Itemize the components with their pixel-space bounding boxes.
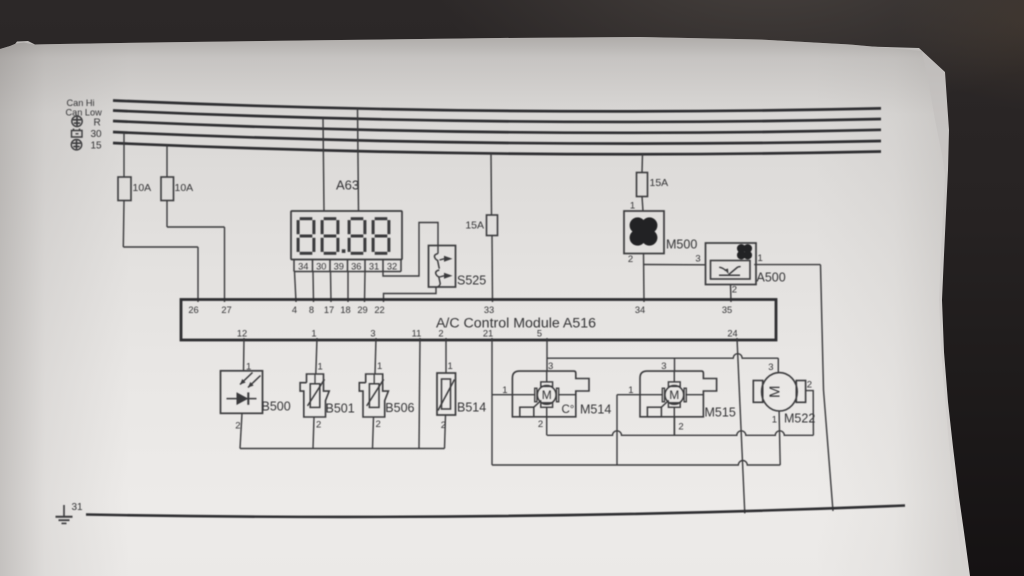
svg-text:R: R [94,117,101,128]
svg-text:1: 1 [318,362,323,373]
svg-text:A500: A500 [757,271,786,285]
svg-text:3: 3 [548,361,553,372]
svg-text:10A: 10A [175,182,194,194]
svg-text:36: 36 [351,261,361,271]
svg-text:11: 11 [412,329,422,339]
svg-text:2: 2 [807,380,812,391]
svg-text:2: 2 [316,420,321,431]
svg-text:M: M [669,388,679,402]
svg-text:Can Low: Can Low [66,108,103,118]
svg-text:M500: M500 [666,238,697,252]
svg-text:1: 1 [630,201,635,212]
svg-text:8: 8 [309,305,314,315]
svg-text:3: 3 [370,329,375,339]
svg-text:2: 2 [438,329,443,339]
svg-text:B501: B501 [326,401,355,415]
svg-text:2: 2 [732,285,737,296]
svg-text:12: 12 [237,329,247,339]
svg-text:10A: 10A [133,182,152,194]
svg-text:4: 4 [292,305,297,315]
svg-text:B514: B514 [457,401,486,415]
svg-text:1: 1 [377,361,382,372]
svg-text:34: 34 [635,305,645,315]
svg-text:30: 30 [316,261,326,271]
svg-text:3: 3 [695,254,700,265]
svg-text:21: 21 [483,329,493,339]
svg-text:1: 1 [311,329,316,339]
svg-text:M514: M514 [580,402,611,416]
svg-text:1: 1 [758,253,763,264]
svg-text:31: 31 [369,261,379,271]
svg-text:2: 2 [376,419,381,430]
svg-text:33: 33 [484,305,494,315]
svg-text:24: 24 [727,329,737,339]
svg-text:2: 2 [538,419,543,430]
svg-text:A63: A63 [336,178,359,193]
svg-text:Can Hi: Can Hi [67,98,95,108]
svg-text:26: 26 [188,305,198,315]
svg-text:34: 34 [298,261,308,271]
svg-text:2: 2 [235,421,240,432]
svg-text:22: 22 [374,305,384,315]
svg-text:5: 5 [537,329,542,339]
svg-text:B506: B506 [385,401,414,415]
svg-text:3: 3 [768,362,773,373]
svg-text:29: 29 [357,305,367,315]
svg-text:1: 1 [772,414,777,425]
svg-text:M522: M522 [784,411,815,425]
svg-text:B500: B500 [262,400,291,414]
svg-text:1: 1 [448,361,453,372]
svg-text:C°: C° [562,404,575,416]
svg-text:17: 17 [324,305,334,315]
svg-text:A/C Control Module A516: A/C Control Module A516 [436,316,596,332]
svg-text:35: 35 [722,305,732,315]
svg-text:2: 2 [628,254,633,265]
svg-text:15: 15 [91,140,103,151]
svg-text:2: 2 [678,422,683,433]
svg-text:39: 39 [334,261,344,271]
svg-text:1: 1 [502,385,507,396]
svg-text:S525: S525 [457,274,486,288]
svg-text:1: 1 [628,385,633,396]
svg-text:30: 30 [91,129,103,140]
svg-text:15A: 15A [465,220,484,232]
svg-text:27: 27 [221,305,231,315]
svg-text:M: M [542,388,552,402]
svg-text:M515: M515 [705,406,736,420]
svg-text:31: 31 [72,502,84,513]
svg-text:M: M [766,386,783,399]
svg-text:15A: 15A [650,177,669,189]
svg-text:32: 32 [387,261,397,271]
svg-text:18: 18 [340,305,350,315]
